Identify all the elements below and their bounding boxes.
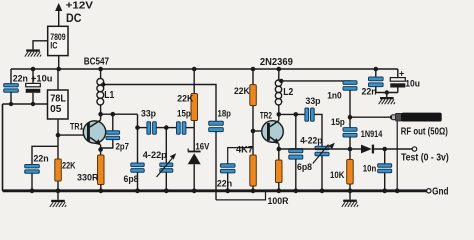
svg-text:05: 05 bbox=[50, 104, 62, 115]
svg-text:10n: 10n bbox=[363, 163, 377, 174]
ground (under 10K) bbox=[349, 192, 351, 200]
node: rail to L1 bbox=[98, 67, 103, 72]
capacitor 22n (TR2 base decoupling) bbox=[220, 148, 253, 191]
wire: base wire to TR1 bbox=[58, 134, 87, 136]
svg-text:10u: 10u bbox=[405, 79, 420, 90]
node: TR1 emitter bbox=[98, 147, 103, 152]
svg-text:2p7: 2p7 bbox=[116, 141, 129, 152]
node: detector junction bbox=[348, 147, 353, 152]
wire: 22n/10u ground join bbox=[376, 92, 398, 94]
wire: base wire to TR2 bbox=[253, 130, 267, 132]
wire: ground rail bbox=[3, 189, 427, 192]
node: 10n top bbox=[382, 147, 387, 152]
svg-text:L2: L2 bbox=[283, 87, 293, 98]
diode 1N914 bbox=[350, 145, 412, 154]
svg-text:DC: DC bbox=[66, 11, 82, 25]
capacitor 6p8 (TR1 divider) bbox=[131, 163, 144, 191]
regulator IC 7809 bbox=[48, 26, 68, 55]
capacitor 22n (input, left edge) bbox=[4, 84, 19, 104]
svg-text:22K: 22K bbox=[62, 161, 76, 172]
wire: +12V arrow into 7809 bbox=[58, 9, 60, 26]
zener diode 16V bbox=[188, 128, 201, 191]
transistor TR1 BC547 bbox=[83, 114, 105, 155]
wire: rail to 78L05 input bbox=[57, 69, 59, 90]
node: TR2 collector bbox=[277, 112, 282, 117]
svg-text:22n: 22n bbox=[217, 179, 232, 190]
capacitor 6p8 (TR2 divider) bbox=[289, 114, 303, 190]
node: rail to 78L05 bbox=[56, 67, 61, 72]
svg-text:33p: 33p bbox=[306, 96, 321, 107]
wire: tap line to 18p bbox=[101, 85, 216, 122]
node: ground stub bbox=[385, 90, 389, 94]
regulator IC 78L05 bbox=[48, 90, 69, 119]
resistor 22K (TR1 base) bbox=[55, 159, 62, 191]
terminal Test bbox=[412, 147, 416, 151]
capacitor 18p bbox=[209, 121, 224, 200]
wire: 78L05 output down bbox=[57, 119, 59, 159]
trimmer capacitor 4-22p (TR2) bbox=[313, 143, 335, 191]
node: 10u to ground line bbox=[31, 102, 35, 106]
capacitor 10u electrolytic (left) bbox=[26, 69, 41, 104]
resistor 22K (TR1 collector tank) bbox=[191, 69, 198, 128]
svg-text:Test (0 - 3v): Test (0 - 3v) bbox=[401, 153, 449, 164]
capacitor 22n (TR1 base decoupling) bbox=[25, 165, 40, 191]
svg-text:BC547: BC547 bbox=[84, 56, 110, 67]
node: RF line junction bbox=[348, 115, 353, 120]
capacitor 10n bbox=[378, 149, 392, 191]
node: rail to L2 bbox=[277, 67, 282, 72]
ground (7809) bbox=[25, 49, 41, 56]
wire: tee to 22n decoupling bbox=[32, 146, 58, 164]
node: TR2 base tee bbox=[251, 129, 256, 134]
node: rail/10u junction bbox=[31, 67, 36, 72]
svg-text:6p8: 6p8 bbox=[124, 174, 139, 185]
wire: rail down to 22n input cap bbox=[10, 69, 12, 84]
resistor 22K (TR2 base) bbox=[250, 69, 256, 155]
wire: 100R loop below ground rail bbox=[216, 191, 266, 200]
node: rail to 22n (output filter) bbox=[374, 67, 379, 72]
svg-text:+: + bbox=[399, 69, 404, 79]
node: 33p/15p junction bbox=[164, 125, 169, 130]
wire: probe ground return bbox=[396, 122, 398, 191]
inductor L1 bbox=[97, 69, 104, 114]
capacitor 1n0 bbox=[343, 81, 357, 118]
capacitor 15p (TR1 tank) bbox=[166, 122, 194, 135]
node: TR2 emitter bbox=[277, 147, 282, 152]
node: TR1 collector bbox=[98, 112, 103, 117]
wire: tap line to 1n0 bbox=[279, 80, 350, 82]
ground (TR1 stage) bbox=[57, 192, 59, 200]
wire: 7809 output to +9V rail bbox=[58, 56, 60, 69]
svg-text:22n: 22n bbox=[34, 154, 49, 165]
wire: TR2 collector line bbox=[279, 113, 305, 115]
wire: RF output line bbox=[350, 116, 392, 118]
resistor 10K bbox=[347, 149, 354, 191]
svg-text:100R: 100R bbox=[268, 196, 289, 207]
resistor 4K7 bbox=[250, 155, 256, 191]
node: 22n to ground line bbox=[9, 102, 13, 106]
svg-text:1n0: 1n0 bbox=[327, 91, 342, 102]
svg-text:18p: 18p bbox=[218, 108, 232, 119]
node: ground rail junctions bbox=[30, 188, 400, 193]
node: RF probe junction bbox=[390, 115, 394, 119]
wire: collector corner down to 6p8 bbox=[137, 114, 139, 163]
svg-text:1N914: 1N914 bbox=[361, 129, 383, 140]
wire: +9V top rail bbox=[11, 68, 398, 70]
ground (output filter) bbox=[386, 93, 388, 98]
trimmer capacitor 4-22p (TR1) bbox=[157, 128, 177, 191]
svg-text:4K7: 4K7 bbox=[236, 145, 253, 156]
node: 6p8 (TR2) top bbox=[294, 112, 299, 117]
capacitor 15p (output) bbox=[343, 117, 357, 149]
wire: left border down to ground rail bbox=[2, 104, 4, 191]
svg-text:TR2: TR2 bbox=[260, 111, 272, 122]
connector RF out probe bbox=[392, 113, 442, 122]
node: rail to 22K (TR1 stage) bbox=[192, 67, 197, 72]
svg-text:+12V: +12V bbox=[66, 0, 93, 12]
svg-text:Gnd: Gnd bbox=[432, 187, 448, 198]
capacitor 33p (TR1 tank) bbox=[138, 122, 167, 135]
svg-text:22K: 22K bbox=[177, 93, 193, 104]
svg-text:16V: 16V bbox=[195, 141, 209, 151]
resistor 100R (TR2 emitter) bbox=[276, 149, 283, 191]
svg-text:RF out (50Ω): RF out (50Ω) bbox=[401, 126, 448, 137]
wire: TR2 emitter line bbox=[279, 148, 350, 150]
wire: 7809 ground pin bbox=[33, 41, 48, 50]
capacitor 10u electrolytic (right) bbox=[390, 69, 405, 93]
svg-text:15p: 15p bbox=[331, 117, 345, 128]
svg-text:6p8: 6p8 bbox=[297, 162, 312, 173]
node: L2 tap bbox=[279, 79, 283, 83]
capacitor 22n (output filter) bbox=[369, 69, 384, 93]
node: TR1 base tee bbox=[56, 133, 61, 138]
svg-text:2N2369: 2N2369 bbox=[260, 57, 293, 68]
svg-text:22n: 22n bbox=[362, 87, 377, 98]
capacitor 2p7 (feedback) bbox=[101, 114, 120, 148]
capacitor 33p (TR2 tank) bbox=[305, 108, 322, 146]
svg-text:4-22p: 4-22p bbox=[300, 136, 322, 147]
svg-text:33p: 33p bbox=[141, 108, 156, 119]
transistor TR2 2N2369 bbox=[262, 114, 284, 149]
inductor L2 bbox=[275, 69, 281, 114]
node: rail to 22K (TR2 base) bbox=[251, 67, 256, 72]
svg-text:TR1: TR1 bbox=[70, 122, 84, 133]
svg-text:22K: 22K bbox=[234, 86, 250, 97]
node: 33p left junction bbox=[135, 125, 140, 130]
resistor 330R bbox=[98, 155, 105, 191]
node: 2p7 top bbox=[111, 112, 116, 117]
wire: ground return line (left) bbox=[3, 103, 48, 105]
terminal Gnd bbox=[427, 189, 431, 193]
svg-text:+10u: +10u bbox=[31, 74, 53, 85]
node: L1 tap bbox=[101, 82, 105, 86]
svg-text:4-22p: 4-22p bbox=[143, 150, 167, 161]
svg-text:10K: 10K bbox=[330, 170, 345, 181]
svg-text:15p: 15p bbox=[177, 108, 191, 119]
svg-text:L1: L1 bbox=[104, 90, 114, 101]
svg-text:IC: IC bbox=[50, 41, 58, 51]
svg-text:330R: 330R bbox=[77, 173, 99, 184]
wire: TR1 collector line bbox=[101, 113, 138, 115]
svg-text:78L: 78L bbox=[50, 94, 66, 105]
